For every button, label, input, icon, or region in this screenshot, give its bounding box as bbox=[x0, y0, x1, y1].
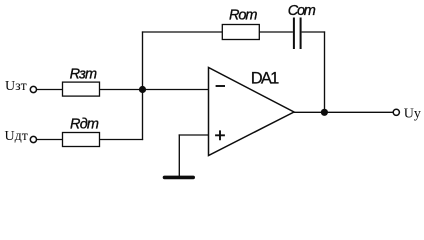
node output junction bbox=[321, 109, 328, 116]
svg-text:Uдт: Uдт bbox=[5, 129, 28, 144]
op-amp plus sign bbox=[215, 130, 225, 140]
terminal Uзт (open circle) bbox=[30, 86, 36, 92]
svg-text:Rзт: Rзт bbox=[70, 66, 98, 82]
wire Rзт to inverting input bbox=[100, 89, 209, 91]
svg-text:Uзт: Uзт bbox=[5, 79, 27, 94]
wire Uзт terminal to R3т bbox=[37, 89, 63, 91]
wire feedback riser up from summing node bbox=[142, 31, 144, 89]
wire Uдт terminal to Rдт bbox=[37, 139, 63, 141]
wire down to ground bbox=[178, 134, 180, 176]
resistor Rдт bbox=[63, 133, 100, 147]
svg-text:Rдт: Rдт bbox=[70, 116, 99, 132]
svg-text:Uу: Uу bbox=[404, 107, 421, 122]
resistor Rот bbox=[222, 25, 259, 40]
wire feedback drop to output node bbox=[324, 31, 326, 112]
resistor Rзт bbox=[63, 82, 100, 96]
wire Cот to output riser bbox=[302, 31, 326, 33]
terminal Uдт (open circle) bbox=[30, 136, 36, 142]
svg-text:DA1: DA1 bbox=[251, 70, 279, 88]
wire Rдт right bbox=[100, 139, 144, 141]
terminal Uу (open circle) bbox=[393, 109, 399, 115]
capacitor Cот left plate bbox=[293, 18, 295, 50]
node junction A (summing node) bbox=[139, 86, 146, 93]
ground bbox=[165, 176, 194, 180]
wire Rот to Cот bbox=[259, 31, 293, 33]
wire noninverting input bbox=[179, 134, 209, 136]
svg-text:Cот: Cот bbox=[288, 3, 316, 19]
op-amp minus sign bbox=[216, 85, 225, 87]
wire feedback top to Rот bbox=[142, 31, 222, 33]
wire output bbox=[294, 111, 393, 113]
capacitor Cот right plate bbox=[300, 18, 302, 50]
op-amp DA1 triangle bbox=[209, 68, 295, 156]
svg-text:Rот: Rот bbox=[229, 8, 258, 24]
wire Rдт up to summing node bbox=[142, 90, 144, 141]
